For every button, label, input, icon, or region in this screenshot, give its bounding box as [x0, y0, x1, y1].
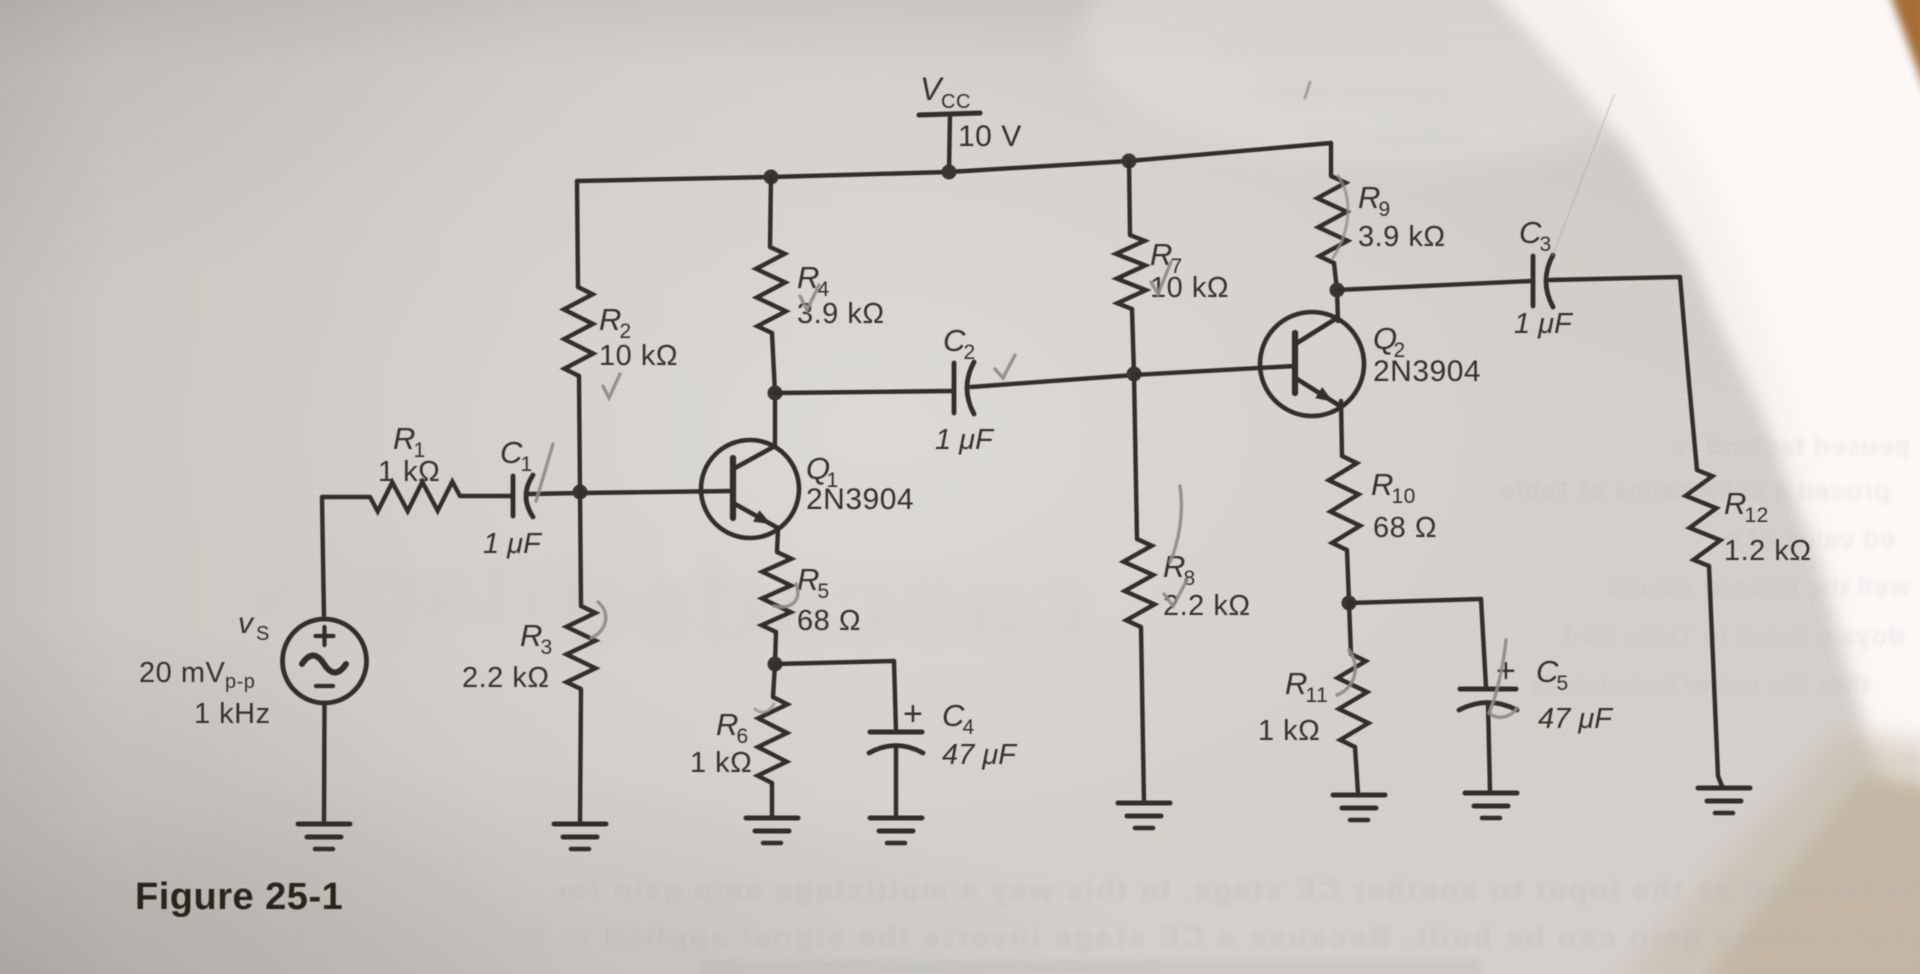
svg-text:9: 9 — [1379, 198, 1391, 221]
svg-text:ultistage amplifier with very: ultistage amplifier with very large volt… — [526, 921, 1920, 954]
source VS sine generator — [283, 619, 367, 703]
label vs source designator — [238, 607, 270, 645]
label C5 polarity plus — [1496, 652, 1516, 690]
svg-text:R: R — [1358, 180, 1381, 215]
label R5 value 68 &#937; — [797, 605, 861, 637]
svg-text:R: R — [1724, 486, 1747, 521]
resistor R6 — [758, 664, 788, 818]
wire: C1 to base node — [529, 493, 580, 494]
svg-text:2: 2 — [964, 341, 976, 364]
label C4 polarity plus — [903, 695, 923, 733]
label R10 value 68 &#937; — [1373, 512, 1437, 544]
svg-text:11: 11 — [1306, 684, 1329, 707]
label C1 — [500, 435, 533, 476]
node: R9 / Q2 collector / C3 junction — [1330, 283, 1345, 298]
label R8 value 2.2 k&#937; — [1163, 590, 1251, 622]
svg-text:1 μF: 1 μF — [935, 424, 995, 456]
wire: R1 to C1 — [460, 494, 512, 498]
svg-text:assume that t: assume that t — [1257, 77, 1450, 109]
svg-text:1 kHz: 1 kHz — [194, 698, 271, 730]
svg-text:3: 3 — [1540, 233, 1552, 256]
svg-text:3: 3 — [541, 636, 553, 659]
power VCC supply symbol 10 V — [919, 71, 1022, 172]
wire: VS to ground — [322, 703, 327, 824]
label source value 20 mVp-p — [139, 657, 255, 693]
svg-text:10: 10 — [1392, 485, 1416, 508]
wire: node to C2 — [775, 391, 953, 393]
resistor R10 — [1329, 456, 1360, 602]
label R10 — [1371, 467, 1416, 508]
svg-text:2.2 kΩ: 2.2 kΩ — [462, 662, 550, 694]
svg-text:INTRODUCING: INTRODUCING — [1214, 26, 1445, 62]
node: VCC junction — [942, 165, 957, 180]
caption Figure 25-1 — [135, 876, 343, 918]
svg-text:5: 5 — [1557, 672, 1569, 695]
capacitor C5 polarized 47 uF — [1459, 689, 1517, 791]
svg-text:S: S — [256, 623, 270, 645]
wire: node to C4 — [775, 661, 896, 731]
wire: VCC top supply rail — [577, 143, 1331, 181]
wire: C3 to R12 — [1550, 277, 1697, 470]
svg-text:Figure 25-1: Figure 25-1 — [135, 876, 343, 918]
svg-text:doya s listed in Table 24-1: doya s listed in Table 24-1 — [1559, 621, 1905, 651]
svg-text:2.2 kΩ: 2.2 kΩ — [1163, 590, 1251, 622]
label C5 value 47 uF — [1538, 703, 1614, 735]
label R2 value 10 k&#937; — [599, 340, 678, 372]
svg-text:R: R — [797, 562, 820, 597]
label C4 value 47 uF — [942, 739, 1018, 771]
svg-text:R: R — [520, 618, 543, 653]
ground (R6) — [746, 818, 798, 843]
ground (R3) — [554, 824, 606, 849]
label R7 — [1150, 237, 1183, 278]
label R12 — [1724, 486, 1769, 527]
resistor R5 — [762, 552, 792, 663]
svg-text:CC: CC — [941, 91, 971, 113]
label R7 value 10 k&#937; — [1150, 272, 1229, 304]
ground (VS) — [298, 824, 350, 849]
capacitor C2 — [954, 362, 974, 414]
wire: Q2 emitter to R10 — [1341, 401, 1342, 456]
capacitor C3 — [1533, 255, 1553, 307]
label C2 value 1 uF — [935, 424, 995, 456]
svg-text:1 kΩ: 1 kΩ — [378, 456, 440, 488]
label R4 — [797, 260, 830, 301]
label Q1 part number 2N3904 — [806, 483, 914, 516]
label R3 — [520, 618, 553, 659]
resistor R1 — [370, 482, 460, 512]
label C3 — [1519, 215, 1552, 256]
label C1 value 1 uF — [483, 528, 543, 560]
svg-text:R: R — [393, 421, 416, 456]
svg-text:4: 4 — [963, 716, 975, 739]
svg-text:silied signal from a CE stage: silied signal from a CE stage can be use… — [552, 874, 1920, 907]
label source value 1 kHz — [194, 698, 271, 730]
resistor R7 — [1116, 161, 1146, 374]
svg-text:68 Ω: 68 Ω — [1373, 512, 1437, 544]
transistor Q1 2N3904 — [701, 440, 799, 538]
label C2 — [943, 323, 976, 364]
node: R10 / R11 / C5 junction — [1342, 596, 1357, 611]
svg-text:20 mV: 20 mV — [139, 657, 225, 689]
node: R4 top junction — [764, 170, 779, 185]
label R12 value 1.2 k&#937; — [1724, 535, 1812, 567]
svg-text:R: R — [1285, 666, 1308, 701]
label R3 value 2.2 k&#937; — [462, 662, 550, 694]
label R1 — [393, 421, 426, 462]
label R5 — [797, 562, 830, 603]
capacitor C1 — [513, 475, 533, 517]
wire: source vs to R1 — [322, 497, 370, 618]
label Q2 — [1373, 321, 1406, 362]
label R11 value 1 k&#937; — [1258, 715, 1320, 747]
label R1 value 1 k&#937; — [378, 456, 440, 488]
svg-text:2N3904: 2N3904 — [806, 483, 914, 516]
resistor R2 — [564, 181, 593, 492]
resistor R8 — [1124, 374, 1155, 803]
node: R7 / R8 / Q2 base junction — [1127, 367, 1142, 382]
svg-text:voltage of th: voltage of th — [1303, 121, 1470, 151]
node: R7 top junction — [1122, 154, 1137, 169]
resistor R3 — [567, 492, 596, 824]
wire: Q1 emitter to R5 — [777, 529, 778, 552]
svg-text:2N3904: 2N3904 — [1373, 355, 1481, 388]
capacitor C4 polarized 47 uF — [869, 732, 923, 818]
svg-text:p-p: p-p — [225, 671, 255, 693]
label R8 — [1163, 549, 1196, 590]
svg-text:+: + — [903, 695, 923, 733]
svg-text:1 kΩ: 1 kΩ — [1258, 715, 1320, 747]
svg-text:1 μF: 1 μF — [1514, 308, 1574, 340]
svg-text:R: R — [1371, 467, 1394, 502]
svg-text:6: 6 — [737, 725, 749, 748]
ground (R12) — [1698, 788, 1750, 813]
ground (R11) — [1333, 795, 1385, 820]
svg-text:3.9 kΩ: 3.9 kΩ — [1358, 221, 1446, 253]
svg-text:47 μF: 47 μF — [942, 739, 1018, 771]
ground (C4) — [870, 818, 922, 843]
svg-text:1: 1 — [521, 453, 533, 476]
svg-text:ther the usher transistors: ther the usher transistors — [1530, 669, 1870, 699]
label Q2 part number 2N3904 — [1373, 355, 1481, 388]
node: R5 / R6 / C4 junction — [768, 657, 783, 672]
label R4 value 3.9 k&#937; — [797, 298, 885, 330]
svg-text:12: 12 — [1745, 504, 1769, 527]
resistor R4 — [756, 177, 786, 393]
svg-text:1.2 kΩ: 1.2 kΩ — [1724, 535, 1812, 567]
svg-text:R: R — [716, 707, 739, 742]
label R6 value 1 k&#937; — [690, 747, 752, 779]
wire: base node to Q2 base — [1134, 366, 1295, 375]
wire: node to C5 — [1349, 599, 1486, 687]
label R2 — [599, 302, 632, 343]
svg-text:1 kΩ: 1 kΩ — [690, 747, 752, 779]
wire: Q1 collector to R4/C2 node — [773, 393, 777, 446]
node: R4 / Q1 collector / C2 junction — [768, 386, 783, 401]
transistor Q2 2N3904 — [1260, 312, 1364, 416]
label R11 — [1285, 666, 1328, 707]
svg-text:1 μF: 1 μF — [483, 528, 543, 560]
svg-text:peused tadland re: peused tadland re — [1670, 431, 1910, 461]
handwritten check marks and pen annotations — [536, 82, 1614, 717]
label Q1 — [806, 451, 839, 492]
svg-text:5: 5 — [818, 580, 830, 603]
svg-text:10 V: 10 V — [958, 120, 1022, 153]
label C5 — [1536, 654, 1569, 695]
svg-text:R: R — [599, 302, 622, 337]
ground (R8) — [1118, 803, 1170, 828]
label R9 — [1358, 180, 1391, 221]
svg-text:47 μF: 47 μF — [1538, 703, 1614, 735]
resistor R11 — [1338, 603, 1369, 793]
label R9 value 3.9 k&#937; — [1358, 221, 1446, 253]
wire: node to C3 — [1337, 281, 1532, 290]
svg-text:well the elected values: well the elected values — [1607, 572, 1911, 602]
wire: C2 to second stage base node — [971, 375, 1134, 387]
svg-text:v: v — [238, 607, 255, 640]
wire: Q2 collector to R9/C3 node — [1337, 290, 1338, 321]
label R6 — [716, 707, 749, 748]
ground (C5) — [1465, 793, 1517, 818]
label C4 — [942, 698, 975, 739]
svg-text:68 Ω: 68 Ω — [797, 605, 861, 637]
svg-text:10 kΩ: 10 kΩ — [599, 340, 678, 372]
label C3 value 1 uF — [1514, 308, 1574, 340]
wire: base node to Q1 base — [580, 491, 733, 493]
resistor R12 — [1686, 470, 1722, 786]
resistor R9 — [1317, 143, 1347, 290]
node: C1 / R2 / R3 / Q1 base junction — [573, 485, 588, 500]
